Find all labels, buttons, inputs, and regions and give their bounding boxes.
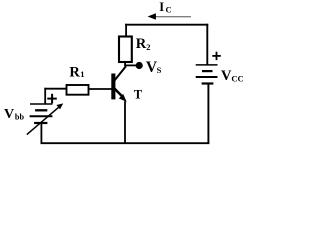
wire vertical below Vbb battery: [40, 124, 42, 145]
plus sign (Vbb polarity): [47, 94, 57, 104]
resistor R1: [67, 85, 89, 95]
svg-text:T: T: [134, 87, 143, 101]
label R2: [136, 36, 151, 52]
emitter arrowhead: [119, 94, 127, 102]
svg-text:R: R: [136, 36, 147, 52]
svg-text:R: R: [69, 64, 80, 80]
base bar: [111, 74, 115, 100]
battery V_bb plates: [30, 104, 53, 123]
svg-text:V: V: [4, 107, 14, 122]
svg-text:2: 2: [146, 42, 150, 52]
wire emitter vertical down to bottom wire: [124, 101, 126, 143]
resistor R2: [119, 37, 132, 63]
label R1: [69, 64, 84, 80]
wire bottom (Vbb to Vcc): [41, 142, 210, 144]
wire vertical from top wire down to Vcc battery: [206, 24, 208, 65]
wire vertical from top wire down to R2: [125, 24, 127, 36]
emitter diagonal: [114, 88, 122, 96]
variable source arrow across V_bb: [27, 103, 63, 134]
collector diagonal: [114, 66, 126, 80]
label V_CC: [221, 68, 244, 84]
label Vs: [146, 59, 162, 76]
svg-text:I: I: [159, 0, 164, 14]
current arrow Ic: [148, 13, 191, 20]
svg-text:V: V: [221, 68, 232, 84]
plus sign (Vcc polarity): [212, 52, 221, 60]
svg-text:C: C: [166, 5, 172, 15]
label I_C: [159, 0, 171, 15]
wire stub right to Vs node: [124, 64, 137, 66]
wire stub below R2 to node: [124, 62, 126, 66]
wire top (R2 corner to Vcc corner): [125, 24, 208, 26]
wire from Vbb battery top to R1: [44, 88, 66, 90]
wire vertical down to Vbb battery top plate: [44, 88, 46, 104]
wire base (R1 to transistor): [89, 88, 112, 90]
label V_bb: [4, 107, 24, 122]
wire vertical below Vcc battery: [207, 84, 209, 144]
transistor T: [111, 66, 126, 102]
node Vs (junction dot): [136, 62, 143, 69]
battery V_CC plates: [196, 65, 218, 84]
svg-text:1: 1: [80, 69, 84, 79]
svg-text:S: S: [157, 65, 162, 75]
svg-text:bb: bb: [15, 113, 25, 122]
svg-text:CC: CC: [231, 73, 243, 83]
